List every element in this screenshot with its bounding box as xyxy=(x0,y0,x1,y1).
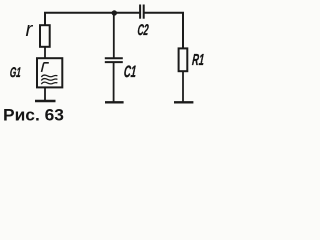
wire from junction down to C1 xyxy=(113,13,115,59)
ground bar under G1 xyxy=(35,100,56,103)
svg-text:C2: C2 xyxy=(137,22,150,39)
svg-text:r: r xyxy=(26,19,34,41)
svg-text:Рис. 63: Рис. 63 xyxy=(3,107,64,124)
G1 wave symbol (three tildes) xyxy=(41,75,57,84)
svg-text:C1: C1 xyxy=(123,62,137,81)
wire from resistor r up and along top rail to C2 left plate xyxy=(45,13,140,26)
resistor r xyxy=(40,25,50,47)
svg-text:G1: G1 xyxy=(9,64,22,80)
wire from G1 down to ground xyxy=(44,87,46,100)
ground bar under R1 xyxy=(174,101,193,103)
wire from resistor r down to G1 xyxy=(44,47,46,59)
wire from C1 down to ground xyxy=(113,63,115,102)
generator G1 box xyxy=(37,58,62,87)
resistor R1 xyxy=(179,48,188,71)
G1 sweep-ramp symbol xyxy=(42,63,49,72)
node junction dot xyxy=(112,10,117,15)
svg-text:R1: R1 xyxy=(191,51,204,69)
wire from R1 down to ground xyxy=(182,71,184,101)
wire from C2 along top rail and down to R1 xyxy=(144,13,183,49)
ground bar under C1 xyxy=(105,101,124,103)
capacitor C1 xyxy=(105,58,123,62)
capacitor C2 xyxy=(140,5,144,19)
